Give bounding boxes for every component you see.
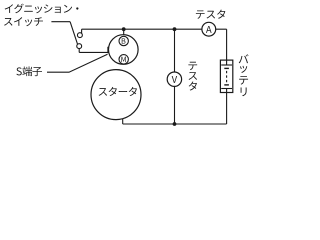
- magnetic switch / solenoid (circle on starter): [109, 35, 139, 65]
- label V in voltmeter: [172, 76, 177, 83]
- label: スタータ (starter) inside motor circle: [99, 87, 137, 96]
- ignition switch blade (open): [70, 22, 77, 44]
- label M on terminal: [121, 57, 125, 62]
- ammeter A (tester) circle on top bus: [202, 22, 216, 36]
- wire: ignition switch upper contact stub to top bus: [81, 29, 83, 33]
- terminal M (small circle): [119, 55, 128, 64]
- voltmeter V (tester) circle on branch: [167, 72, 181, 86]
- battery bottom cell long (+) plate: [221, 88, 232, 90]
- wire: starter motor lead down to bottom bus: [122, 118, 124, 124]
- battery bottom cell short (-) plate: [224, 84, 229, 86]
- battery omitted-cells dashed line: [226, 71, 228, 83]
- label B on terminal: [122, 38, 126, 43]
- label: テスタ (tester) above ammeter: [196, 10, 225, 19]
- ignition switch upper contact circle: [77, 33, 82, 38]
- label: テスタ (tester) vertical beside voltmeter: [188, 62, 197, 91]
- wire: right drop from top bus into battery positive terminal: [226, 29, 228, 65]
- junction dot: bottom bus / voltmeter branch: [173, 122, 177, 126]
- wire: stub from top bus junction down to B terminal: [123, 29, 125, 36]
- label A in ammeter: [206, 26, 212, 33]
- label: バッテリ (battery) vertical beside battery: [239, 54, 249, 96]
- S terminal tick mark on solenoid: [107, 47, 109, 53]
- wire: top bus from ignition switch to battery (net +B): [82, 28, 227, 30]
- terminal B (small circle): [119, 36, 128, 45]
- battery top cell long (+) plate: [221, 64, 232, 66]
- label: ignition switch line1 イグニッション・: [5, 4, 79, 14]
- wire: voltmeter branch vertical from top bus to bottom bus: [174, 29, 176, 124]
- wire: switch lower contact elbow down: [78, 49, 80, 53]
- wire: battery negative lead down to bottom bus: [226, 89, 228, 125]
- starter motor (big circle): [91, 70, 141, 120]
- junction dot: top bus / B-terminal stub: [122, 27, 126, 31]
- junction dot: top bus / voltmeter branch: [173, 27, 177, 31]
- ignition switch lower contact circle: [77, 44, 82, 49]
- label: ignition switch line2 スイッチ: [4, 17, 43, 26]
- battery top cell short (-) plate: [224, 67, 229, 69]
- leader line from S-terminal label: [47, 54, 108, 72]
- label: S端子 (S terminal): [16, 66, 42, 76]
- leader line from ignition-switch label (horizontal): [51, 21, 70, 23]
- battery BT outline box: [220, 60, 232, 92]
- wire: S-terminal wire from switch to magnetic switch: [79, 51, 109, 53]
- wire: bottom bus (ground return) from starter to battery: [123, 123, 227, 125]
